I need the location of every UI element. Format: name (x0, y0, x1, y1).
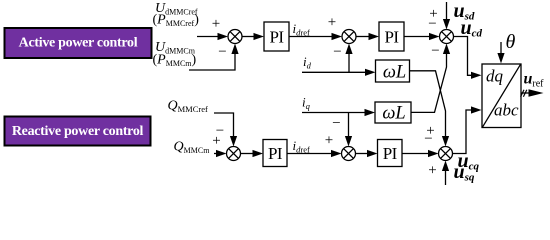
svg-text:ωL: ωL (383, 63, 406, 83)
svg-text:+: + (212, 133, 220, 149)
svg-text:PI: PI (383, 144, 398, 163)
three-phase hatch marks on uref wire (521, 90, 527, 97)
wire ucd from S3 into dq/abc block (454, 37, 482, 79)
wire id input to omega-L block W1 (302, 69, 376, 76)
wire iq input to omega-L block W2 (302, 109, 375, 116)
svg-text:PI: PI (269, 28, 284, 47)
PI controller PI3 (263, 140, 287, 167)
svg-text:Reactive power control: Reactive power control (12, 124, 144, 139)
wire S2 to PI2 (356, 33, 379, 40)
omega-L block W2 (375, 102, 411, 124)
svg-text:−: − (332, 116, 340, 132)
wire QMMCm into summer S4 left (214, 150, 227, 157)
svg-text:θ: θ (506, 31, 516, 53)
wire usq input up into S6 (442, 161, 449, 186)
wire S4 to PI3 (241, 150, 264, 157)
PI controller PI2 (379, 22, 404, 51)
wire PI1 to summer S2 (289, 33, 342, 40)
summer S4 (227, 147, 241, 161)
svg-text:dq: dq (486, 67, 504, 86)
wire usd input down into S3 (443, 2, 450, 30)
summer S6 (439, 147, 453, 161)
wire UdMMCref input into summer S1 (197, 33, 228, 40)
wire QMMCref into summer S4 top (214, 113, 237, 147)
wire PI4 to summer S6 (402, 150, 439, 157)
svg-text:+: + (212, 16, 220, 32)
summer S5 (342, 147, 356, 161)
summer S1 (228, 30, 242, 44)
svg-text:+: + (325, 133, 333, 149)
label box: Active power control (5, 28, 152, 58)
svg-text:Active power control: Active power control (19, 36, 138, 51)
svg-text:PI: PI (384, 28, 399, 47)
label box: Reactive power control (5, 117, 151, 146)
wire iq branch down into S5 (345, 113, 352, 147)
svg-text:ωL: ωL (382, 104, 405, 124)
summer S3 (440, 30, 454, 44)
wire id branch up into S2 (345, 44, 352, 73)
wire W2 output crossing up into S3 (411, 44, 450, 113)
svg-text:abc: abc (494, 101, 519, 120)
wire W1 output crossing down into S6 (410, 71, 450, 147)
svg-text:+: + (429, 6, 437, 22)
wire PI2 to summer S3 (404, 33, 440, 40)
wire uref output (521, 89, 544, 97)
wire S1 to PI1 (242, 33, 264, 40)
wire PMMCm feedback into summer S1 bottom (189, 44, 239, 71)
wire theta input into dq/abc block (497, 42, 504, 64)
PI controller PI4 (378, 140, 403, 167)
wire ucq from S6 into dq/abc block (453, 106, 482, 153)
svg-text:−: − (218, 44, 226, 60)
transform block dq/abc (482, 64, 521, 128)
summer S2 (342, 30, 356, 44)
svg-text:−: − (333, 44, 341, 60)
svg-text:−: − (424, 131, 432, 147)
svg-text:−: − (431, 43, 439, 59)
svg-text:+: + (328, 15, 336, 31)
wire S5 to PI4 (356, 150, 378, 157)
PI controller PI1 (264, 22, 289, 51)
wire PI3 to summer S5 (287, 150, 342, 157)
svg-text:+: + (428, 163, 436, 179)
svg-text:PI: PI (268, 144, 283, 163)
omega-L block W1 (376, 60, 410, 83)
